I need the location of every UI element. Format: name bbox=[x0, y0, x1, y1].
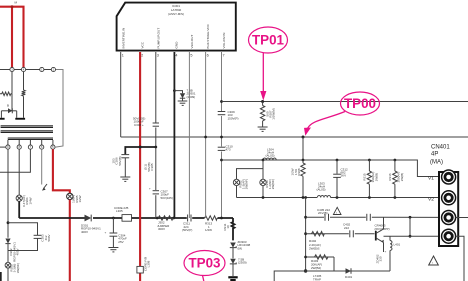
transistor block left rail bbox=[305, 198, 307, 272]
TP03 callout bbox=[184, 251, 225, 281]
secondary pin circles bbox=[6, 145, 55, 149]
wire: pin3 secondary left bbox=[0, 149, 30, 172]
svg-text:400V: 400V bbox=[16, 248, 20, 255]
svg-text:(2309): (2309) bbox=[238, 261, 247, 265]
svg-text:50V(B): 50V(B) bbox=[118, 156, 122, 165]
svg-text:2: 2 bbox=[141, 54, 143, 58]
svg-text:1: 1 bbox=[122, 54, 124, 58]
edge bar bottom-left bbox=[0, 272, 2, 281]
row B base wire bbox=[306, 233, 375, 235]
ground bbox=[108, 248, 118, 252]
svg-text:222: 222 bbox=[344, 226, 349, 230]
fusible resistor R303 bbox=[5, 262, 11, 268]
resistor R315 bbox=[368, 159, 371, 162]
svg-text:R316: R316 bbox=[388, 173, 392, 181]
svg-text:!: ! bbox=[432, 261, 433, 265]
core on red wire bbox=[137, 266, 143, 273]
wire: pin1 drop bbox=[11, 72, 13, 94]
ground blob bbox=[228, 276, 237, 278]
wire: pin5 bbox=[188, 52, 190, 218]
wire: pin7 bbox=[221, 52, 223, 218]
pin4 right stub bbox=[456, 236, 464, 281]
wire: pin2 secondary to R304 bbox=[18, 149, 20, 195]
svg-text:TP03: TP03 bbox=[188, 256, 220, 271]
svg-text:(M): (M) bbox=[238, 246, 243, 250]
capacitor C312 bbox=[336, 159, 339, 162]
svg-text:2W(B): 2W(B) bbox=[400, 173, 404, 182]
fusible resistor R305 bbox=[67, 193, 73, 199]
wire TP00 node to line3 bbox=[302, 137, 304, 160]
svg-text:CN401: CN401 bbox=[431, 145, 450, 151]
svg-text:TRAP: TRAP bbox=[313, 277, 321, 281]
capacitor C303 loop bbox=[8, 223, 38, 235]
wire line4 to V2 bbox=[237, 197, 442, 199]
spark gap pin4 bbox=[41, 149, 43, 184]
inductor L401 bbox=[389, 236, 391, 241]
capacitor C308 inline bbox=[152, 123, 160, 128]
branch C306 from red bbox=[139, 146, 142, 149]
svg-text:6: 6 bbox=[207, 54, 209, 58]
transistor Q401 bbox=[375, 231, 377, 241]
capacitor C309 inline bbox=[218, 111, 226, 116]
resistor R307 bbox=[262, 102, 264, 106]
svg-text:473: 473 bbox=[226, 148, 231, 152]
svg-text:(50V(P): (50V(P) bbox=[182, 228, 192, 232]
svg-text:V2: V2 bbox=[428, 197, 434, 203]
wire: pin5 secondary red bbox=[53, 149, 70, 193]
bottom wires bbox=[306, 256, 334, 258]
svg-text:C308 +: C308 + bbox=[134, 123, 144, 127]
resistor R313 inline bbox=[205, 215, 218, 221]
wire: pin1 to line2 bbox=[120, 52, 122, 137]
terminal bars bbox=[0, 118, 5, 120]
svg-text:D401: D401 bbox=[345, 275, 353, 279]
svg-text:7: 7 bbox=[223, 54, 225, 58]
diode D302 bbox=[5, 239, 10, 244]
svg-text:25V: 25V bbox=[118, 240, 123, 244]
wire: pin2 VCC red bbox=[139, 52, 141, 281]
svg-text:VCC: VCC bbox=[141, 41, 145, 48]
capacitor C405 inline bbox=[324, 214, 330, 221]
svg-text:+: + bbox=[149, 187, 151, 191]
svg-text:3W(NF): 3W(NF) bbox=[16, 263, 20, 274]
wire: top-left red feed bbox=[0, 7, 24, 68]
transformer T301 winding bars bbox=[1, 125, 53, 140]
resistor R601 primary bbox=[0, 92, 12, 96]
svg-text:50V(105): 50V(105) bbox=[161, 196, 173, 200]
capacitor C304 electrolytic bbox=[112, 218, 114, 233]
diode damper block bbox=[1, 110, 16, 112]
capacitor C310 inline bbox=[218, 147, 226, 152]
svg-text:400V: 400V bbox=[81, 230, 88, 234]
node: red junction bbox=[11, 5, 14, 8]
svg-text:2W(NF): 2W(NF) bbox=[271, 179, 275, 190]
wire: pin4 GND thick bbox=[173, 52, 175, 218]
inductor L303 bbox=[317, 195, 331, 200]
zener stack node bbox=[220, 217, 223, 220]
wire: red down to bottom bbox=[69, 200, 71, 281]
svg-text:BUF.STAGE.VCC: BUF.STAGE.VCC bbox=[206, 23, 210, 48]
svg-text:(MA): (MA) bbox=[430, 160, 443, 166]
svg-text:(AL05): (AL05) bbox=[317, 188, 326, 192]
connector CN401 bbox=[439, 172, 458, 246]
wire line3 to V1 bbox=[222, 160, 442, 177]
svg-text:TP00: TP00 bbox=[344, 96, 376, 111]
diode D301 bbox=[85, 215, 92, 222]
TP00 callout bbox=[304, 92, 380, 136]
wire: R304 to HV line bbox=[18, 201, 20, 218]
svg-text:10: 10 bbox=[226, 225, 230, 229]
capacitor C307 inline bbox=[152, 190, 160, 195]
pin numbers bbox=[122, 54, 225, 58]
svg-text:PUMP.UP.OUT: PUMP.UP.OUT bbox=[156, 28, 160, 49]
row A wire to pin3 bbox=[306, 216, 442, 218]
svg-text:R315: R315 bbox=[363, 173, 367, 181]
svg-text:2W(B2): 2W(B2) bbox=[311, 266, 321, 270]
capacitor C311 inline bbox=[187, 215, 192, 221]
fusible resistor R304 bbox=[16, 195, 22, 201]
warning triangle bbox=[333, 207, 341, 214]
inductor L304 bbox=[263, 158, 276, 160]
svg-text:L305: L305 bbox=[116, 209, 123, 213]
node TP00 target bbox=[302, 136, 305, 139]
svg-text:2W(B): 2W(B) bbox=[374, 173, 378, 182]
long wire line1 bbox=[222, 101, 468, 103]
svg-text:+: + bbox=[105, 231, 107, 235]
pin labels IC301 bbox=[121, 23, 226, 48]
zener ZD301 bbox=[174, 91, 182, 94]
warning triangle under connector bbox=[429, 256, 439, 265]
resistor R308 bbox=[302, 160, 304, 163]
zener ZD303 bbox=[230, 243, 236, 248]
svg-text:GND: GND bbox=[175, 41, 179, 49]
svg-text:V1: V1 bbox=[428, 176, 434, 182]
long wire line2 bbox=[121, 136, 468, 138]
wire: left stub bbox=[0, 146, 6, 148]
svg-text:(2309): (2309) bbox=[187, 95, 196, 99]
svg-text:1/2W: 1/2W bbox=[78, 195, 82, 202]
wire: red drop to pin bbox=[11, 7, 13, 68]
svg-text:3: 3 bbox=[157, 54, 159, 58]
svg-text:L308: L308 bbox=[147, 260, 151, 267]
pin4 wire bbox=[384, 235, 442, 237]
wire: to damper bbox=[11, 94, 13, 111]
capacitor C402 inline bbox=[349, 231, 355, 237]
wire: pin1 secondary down bbox=[7, 149, 9, 238]
pin3 right stub bbox=[456, 217, 468, 219]
node bbox=[7, 221, 10, 224]
svg-text:1/2W: 1/2W bbox=[205, 228, 212, 232]
op-amp block IC301 bbox=[117, 3, 236, 51]
svg-text:VOL.INV.IN: VOL.INV.IN bbox=[222, 33, 226, 49]
svg-text:L401: L401 bbox=[394, 243, 401, 247]
svg-text:500V: 500V bbox=[47, 234, 51, 241]
node C304 tap bbox=[112, 217, 115, 220]
HV horizontal line bbox=[19, 217, 84, 219]
coil primary winding lead bbox=[23, 72, 25, 90]
svg-text:5: 5 bbox=[190, 54, 192, 58]
emitter cap bbox=[383, 248, 385, 252]
svg-text:C305: C305 bbox=[150, 163, 154, 171]
wire: rail to box edge bbox=[55, 70, 63, 148]
svg-text:+: + bbox=[385, 250, 387, 254]
connector pins bbox=[442, 170, 456, 243]
capacitor CR4065 inline bbox=[366, 214, 372, 221]
svg-text:1/4W: 1/4W bbox=[28, 197, 32, 204]
svg-text:4: 4 bbox=[175, 54, 177, 58]
secondary pin ticks bbox=[8, 140, 53, 145]
wire: primary top rail bbox=[0, 69, 55, 71]
svg-text:1/2W(M): 1/2W(M) bbox=[272, 108, 276, 120]
vertical to pin4 wire bbox=[409, 217, 411, 236]
svg-text:VER.OUT: VER.OUT bbox=[190, 35, 194, 49]
svg-text:INVERTING.IN: INVERTING.IN bbox=[121, 28, 125, 49]
svg-text:B: B bbox=[7, 104, 9, 108]
svg-text:(AL05): (AL05) bbox=[266, 154, 275, 158]
svg-text:2W(B)S: 2W(B)S bbox=[309, 247, 320, 251]
TP01 callout bbox=[249, 27, 288, 101]
svg-text:2KV: 2KV bbox=[341, 174, 347, 178]
core L305 bbox=[122, 215, 132, 222]
svg-text:300V: 300V bbox=[158, 227, 165, 231]
zener ZD304 bbox=[230, 259, 236, 264]
svg-text:330: 330 bbox=[379, 256, 383, 261]
wire: pin6 bbox=[205, 52, 207, 218]
svg-text:TP01: TP01 bbox=[252, 33, 285, 48]
svg-text:M: M bbox=[15, 1, 18, 5]
svg-text:2W(NF): 2W(NF) bbox=[245, 179, 249, 190]
fusible resistors R302 R310 bbox=[262, 159, 265, 162]
wire: pin3 bbox=[155, 52, 157, 218]
resistor R316 bbox=[394, 159, 397, 162]
svg-text:2KV(B): 2KV(B) bbox=[318, 211, 328, 215]
svg-text:150V(P): 150V(P) bbox=[228, 116, 239, 120]
resistor R311 small bbox=[232, 218, 235, 240]
svg-text:4P: 4P bbox=[431, 152, 438, 158]
jumper J302 bbox=[156, 217, 159, 220]
svg-text:(ASSY-M/S): (ASSY-M/S) bbox=[168, 12, 184, 16]
svg-text:R308: R308 bbox=[297, 168, 301, 176]
svg-text:1/2W: 1/2W bbox=[291, 168, 295, 175]
pin circles T301 primary bbox=[10, 67, 56, 71]
